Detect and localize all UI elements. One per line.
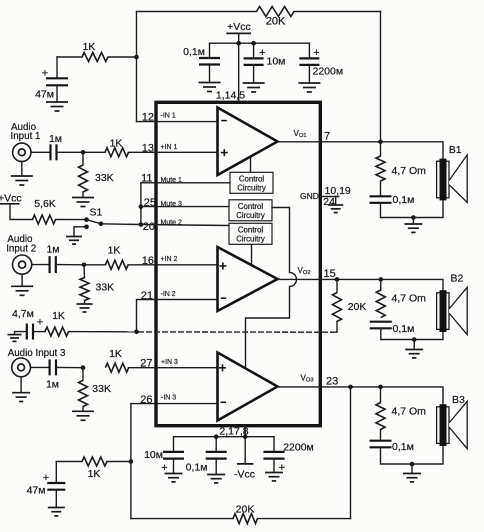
ground below S1	[66, 237, 82, 245]
svg-text:1K: 1K	[108, 245, 121, 257]
ground below 33K ch1	[72, 192, 94, 207]
svg-text:20K: 20K	[236, 504, 255, 516]
svg-text:5,6K: 5,6K	[34, 198, 56, 210]
svg-text:Circuitry: Circuitry	[237, 184, 266, 193]
wire pin 27 +IN3 into op-amp	[129, 367, 218, 369]
svg-text:21: 21	[141, 290, 153, 302]
resistor 1K (ch1 input)	[105, 148, 129, 157]
svg-text:16: 16	[142, 255, 154, 267]
capacitor 0,1м (-Vcc decoupling)	[206, 437, 227, 459]
svg-text:B3: B3	[452, 394, 465, 406]
label 1K (ch1 feedback)	[83, 41, 96, 53]
resistor 1K (ch3 input)	[105, 363, 128, 372]
node mute bus pin 25 junction	[139, 204, 144, 209]
svg-text:+: +	[313, 47, 319, 59]
capacitor 10м (-Vcc decoupling)	[163, 437, 184, 459]
ground below 33K ch2	[77, 301, 93, 313]
label 10м (+Vcc)	[267, 56, 286, 68]
svg-text:-IN 1: -IN 1	[161, 112, 176, 119]
resistor 1K (ch1 feedback to ground)	[82, 53, 108, 62]
svg-text:0,1м: 0,1м	[393, 194, 415, 206]
op-amp U1c minus sign	[221, 401, 227, 403]
svg-text:1K: 1K	[52, 310, 65, 322]
label + polarity 10м	[259, 47, 265, 59]
label 5,6K	[34, 198, 56, 210]
wire GND pins stub	[320, 196, 339, 198]
resistor 4,7 Om (B3 zobel)	[376, 387, 385, 430]
label 33K (ch1)	[95, 172, 114, 184]
svg-text:20K: 20K	[348, 301, 367, 313]
switch S1 arm	[87, 220, 101, 224]
resistor 1K (ch2 feedback)	[45, 327, 69, 336]
pin number 25	[144, 197, 156, 209]
capacitor 10м (+Vcc decoupling)	[244, 43, 264, 65]
+Vcc supply bar symbol	[226, 32, 251, 34]
svg-text:4,7 Om: 4,7 Om	[392, 406, 427, 418]
svg-text:33K: 33K	[96, 282, 115, 294]
wire pin 21 -IN2 into op-amp	[137, 300, 219, 332]
ground at GND pins	[328, 197, 343, 213]
ground below 33K ch3	[72, 407, 94, 421]
svg-text:4,7 Om: 4,7 Om	[392, 165, 427, 177]
connector Audio Input 3 jack	[12, 358, 31, 377]
svg-text:Circuitry: Circuitry	[236, 235, 265, 244]
wire jack 3 to coupling cap	[31, 366, 50, 368]
ground below 0,1м bottom	[207, 459, 225, 483]
label 2200м (+Vcc)	[313, 66, 344, 78]
wire 1K to -IN3 node	[107, 461, 131, 463]
wire cap to ch3 input node	[56, 366, 83, 368]
ground at 4,7м cap	[8, 332, 27, 342]
pin number 7	[324, 131, 330, 143]
svg-text:Circuitry: Circuitry	[236, 211, 265, 220]
svg-text:+IN 1: +IN 1	[161, 144, 178, 151]
resistor 1K (ch2 input)	[105, 260, 128, 269]
svg-text:13: 13	[142, 142, 154, 154]
svg-text:27: 27	[140, 358, 152, 370]
capacitor 0,1м (+Vcc decoupling)	[199, 43, 220, 64]
svg-text:Control: Control	[239, 175, 264, 184]
svg-text:0,1м: 0,1м	[393, 323, 415, 335]
wire 1K to junction	[108, 56, 137, 58]
capacitor 47м (ch3 feedback)	[47, 462, 65, 490]
node pin 23 / bottom feedback junction	[348, 385, 353, 390]
svg-text:1K: 1K	[88, 468, 101, 480]
label 47м (top)	[35, 89, 54, 101]
resistor 33K (ch3 bias)	[79, 368, 88, 407]
wire 20K bottom to dashed feedback	[331, 322, 337, 333]
svg-text:GND: GND	[300, 191, 319, 201]
pin number 20	[143, 221, 155, 233]
pin number 13	[142, 142, 154, 154]
wire 47м cap to 1K resistor	[57, 56, 82, 58]
ground below jack 2	[11, 274, 33, 295]
label 4,7м	[12, 308, 34, 320]
svg-text:1м: 1м	[46, 243, 59, 255]
pin number 23	[326, 375, 338, 387]
label 10м (bottom)	[144, 449, 163, 461]
capacitor 47м (ch1 feedback)	[46, 57, 68, 85]
svg-text:1,14,5: 1,14,5	[216, 90, 245, 102]
label +IN 2	[161, 256, 178, 263]
op-amp U1a plus sign	[221, 149, 228, 156]
label 0,1м (+Vcc)	[183, 46, 205, 58]
label -IN 3	[161, 395, 176, 402]
wire 5,6K to switch contact	[56, 219, 87, 221]
wire pin 25 Mute 3 into IC	[141, 206, 229, 208]
node mute bus pin 20 junction	[139, 222, 144, 227]
resistor 20K (bottom feedback)	[233, 514, 258, 524]
label 1м (ch3)	[46, 379, 59, 391]
svg-text:10м: 10м	[144, 449, 163, 461]
svg-text:33K: 33K	[92, 383, 111, 395]
label -IN 1	[161, 112, 176, 119]
ground below 47м bottom	[48, 490, 65, 516]
node B1 ground junction	[411, 215, 416, 220]
wire dashed feedback to 20K (pin 15)	[139, 331, 331, 333]
ground below 2200м bottom	[265, 459, 283, 481]
pin number 16	[142, 255, 154, 267]
capacitor 1м (ch1 input coupling)	[51, 144, 57, 160]
control circuitry box 2 (Mute 3)	[229, 200, 272, 221]
node -IN2 feedback junction	[134, 330, 139, 335]
svg-text:4,7м: 4,7м	[12, 308, 34, 320]
capacitor 2200м (-Vcc bulk)	[264, 437, 285, 459]
wire cap to ch2 input node	[56, 264, 84, 266]
wire B3 zobel and speaker return	[381, 445, 444, 464]
svg-text:33K: 33K	[95, 172, 114, 184]
ground below 0,1м (+Vcc)	[199, 65, 221, 92]
wire jack 1 to coupling cap	[31, 151, 51, 153]
+Vcc bar (mute pull-up)	[0, 203, 20, 205]
svg-text:1м: 1м	[49, 133, 62, 145]
label 20K (ch2 feedback)	[348, 301, 367, 313]
wire Vo1 output pin 7 to speaker B1	[278, 142, 444, 160]
label 4,7 Om (B1)	[392, 165, 427, 177]
svg-text:-IN 2: -IN 2	[161, 291, 176, 298]
wire +Vcc decoupling rail	[210, 42, 310, 44]
label Audio Input 1	[11, 122, 41, 142]
ground at B3 return	[403, 464, 421, 482]
resistor 4,7 Om (B1 zobel)	[376, 142, 385, 181]
svg-text:+IN 3: +IN 3	[161, 359, 178, 366]
pin numbers 10,19	[325, 185, 351, 197]
svg-text:Audio Input 3: Audio Input 3	[8, 348, 66, 359]
svg-text:10м: 10м	[267, 56, 286, 68]
label 20K (bottom)	[236, 504, 255, 516]
svg-text:24: 24	[323, 196, 335, 208]
label + polarity 4,7м	[37, 317, 43, 329]
svg-text:2200м: 2200м	[283, 442, 314, 454]
switch S1 lower contact	[84, 225, 89, 230]
svg-text:+: +	[43, 472, 49, 484]
wire feedback left vertical down to -IN1	[136, 12, 138, 122]
resistor 20K (top feedback)	[257, 7, 295, 17]
connector Audio Input 1 jack	[13, 143, 31, 161]
svg-text:26: 26	[140, 394, 152, 406]
label + polarity 47м bottom	[43, 472, 49, 484]
label 1м (ch2)	[46, 243, 59, 255]
ground below 10м bottom	[165, 459, 183, 482]
wire pin 16 +IN2 into op-amp	[128, 264, 218, 266]
label Mute 2	[161, 219, 183, 226]
label S1	[90, 207, 103, 219]
label 4,7 Om (B3)	[392, 406, 427, 418]
svg-text:2200м: 2200м	[313, 66, 344, 78]
wire Vo2 output pin 15 to speaker B2	[278, 279, 444, 291]
capacitor 2200м (+Vcc bulk)	[299, 58, 319, 65]
node 1K/20K/-IN3 junction	[129, 459, 134, 464]
pin number 21	[141, 290, 153, 302]
node rail/stem junction	[236, 41, 241, 46]
wire jack 2 to coupling cap	[32, 264, 50, 266]
label 0,1м (B1)	[393, 194, 415, 206]
wire -Vcc stem from IC pins 2,17,8	[244, 426, 246, 464]
pin number 15	[324, 268, 336, 280]
wire cap to ch1 input node	[57, 151, 84, 153]
label 2200м (bottom)	[283, 442, 314, 454]
capacitor 0,1м (B3 zobel)	[370, 430, 392, 448]
ground at B2 return	[405, 340, 423, 358]
switch S1 pivot	[99, 222, 104, 227]
node B2 ground junction	[412, 337, 417, 342]
ground below 47м top	[46, 85, 68, 111]
label 1м (ch1)	[49, 133, 62, 145]
pin label 2,17,8 (V- pins)	[219, 426, 248, 438]
label 33K (ch3)	[92, 383, 111, 395]
node Vo2 zobel junction	[379, 277, 384, 282]
node rail/10м junction	[251, 41, 256, 46]
label B1	[449, 144, 462, 156]
op-amp U1b minus sign	[221, 297, 227, 299]
wire B2 zobel and speaker return	[381, 328, 443, 339]
label +Vcc (mute pull-up)	[0, 193, 22, 205]
label + polarity 10м bottom	[161, 462, 167, 474]
svg-text:Input 2: Input 2	[6, 244, 36, 255]
label + polarity 2200м	[313, 47, 319, 59]
label 33K (ch2)	[96, 282, 115, 294]
wire top feedback horizontal (Vo1 to 20K to -IN1 node)	[137, 11, 381, 13]
label + polarity 2200м bottom	[279, 462, 285, 474]
resistor 33K (ch2 bias)	[80, 265, 89, 301]
label Vo2	[298, 266, 311, 276]
pin number 11	[141, 172, 152, 184]
wire rail corner to 2200м	[308, 43, 310, 58]
svg-text:15: 15	[324, 268, 336, 280]
resistor 1K (ch3 feedback)	[82, 457, 107, 466]
svg-text:23: 23	[326, 375, 338, 387]
node B3 ground junction	[410, 462, 415, 467]
label +IN 1	[161, 144, 178, 151]
op-amp U1a triangle	[218, 108, 278, 176]
label Vo3	[301, 374, 314, 384]
label 0,1м (bottom)	[186, 462, 208, 474]
ground below 10м	[243, 65, 265, 92]
wire Vo3 feedback right vertical	[350, 387, 352, 519]
wire mute bus vertical	[140, 183, 142, 225]
wire 4,7м to 1K	[33, 331, 45, 333]
op-amp U1b triangle	[218, 247, 278, 311]
wire lower contact to ground	[74, 227, 87, 237]
speaker B1	[437, 155, 468, 203]
node ch2 input junction	[82, 263, 87, 268]
op-amp U1b plus sign	[219, 263, 226, 270]
label B2	[451, 273, 464, 285]
op-amp U1c plus sign	[219, 364, 226, 371]
capacitor 0,1м (B2 zobel)	[370, 322, 392, 329]
wire +Vcc stem down to IC pins 1,14,5	[238, 33, 240, 101]
op-amp U1a minus sign	[221, 120, 227, 122]
node junction 1K/20K/-IN1	[134, 55, 139, 60]
svg-text:1K: 1K	[83, 41, 96, 53]
resistor 33K (ch1 bias)	[79, 152, 88, 192]
svg-text:1м: 1м	[46, 379, 59, 391]
wire feedback right vertical down to Vo1 node	[380, 12, 382, 142]
wire control box 2 to op-amp 3 (with hop over Vo2)	[246, 208, 297, 369]
wire op-amp1 to control box 1	[250, 157, 252, 172]
wire ch2 node to 1K	[84, 264, 105, 266]
svg-text:47м: 47м	[35, 89, 54, 101]
wire -Vcc decoupling rail	[174, 436, 275, 438]
svg-text:20: 20	[143, 221, 155, 233]
wire control box 3 to op-amp 2	[251, 244, 253, 265]
control circuitry box 3 (Mute 2)	[229, 223, 272, 244]
svg-text:+: +	[259, 47, 265, 59]
svg-text:+Vcc: +Vcc	[227, 21, 251, 33]
node Vo3 zobel junction	[378, 385, 383, 390]
wire B1 zobel and speaker return	[381, 199, 444, 218]
svg-text:1K: 1K	[110, 138, 123, 150]
capacitor 1м (ch2 input coupling)	[50, 256, 56, 273]
svg-text:B1: B1	[449, 144, 462, 156]
wire bottom feedback horizontal	[131, 518, 351, 520]
resistor 20K (ch2 feedback)	[333, 279, 342, 321]
node pin 15 / 20K junction	[335, 277, 340, 282]
svg-text:12: 12	[142, 112, 154, 124]
ground below jack 1	[11, 162, 33, 186]
label -IN 2	[161, 291, 176, 298]
label +IN 3	[161, 359, 178, 366]
ground below 2200м	[298, 65, 320, 92]
speaker B2	[437, 287, 468, 334]
wire pin 11 Mute 1 into IC	[141, 182, 230, 184]
svg-text:Input 1: Input 1	[11, 131, 41, 142]
capacitor 0,1м (B1 zobel)	[370, 181, 392, 203]
wire pin 20 Mute 2 into IC	[141, 225, 229, 226]
svg-text:7: 7	[324, 131, 330, 143]
label 20K (top)	[266, 16, 286, 28]
label Audio Input 2	[6, 234, 36, 255]
op-amp U1c triangle	[218, 353, 278, 421]
capacitor 4,7м (ch2 feedback)	[27, 324, 33, 340]
resistor 4,7 Om (B2 zobel)	[376, 279, 385, 317]
wire pin 26 -IN3 into op-amp	[131, 404, 218, 519]
label Mute 1	[161, 177, 183, 184]
svg-text:0,1м: 0,1м	[186, 462, 208, 474]
control circuitry box 1 (Mute 1)	[230, 172, 273, 193]
op-amp IC U1 package outline (pins 1-27)	[156, 102, 320, 425]
label 4,7 Om (B2)	[392, 293, 427, 305]
label + polarity 47м top	[42, 68, 48, 80]
svg-text:+Vcc: +Vcc	[0, 193, 22, 205]
svg-text:B2: B2	[451, 273, 464, 285]
pin number 12	[142, 112, 154, 124]
speaker B3	[437, 401, 468, 448]
svg-text:S1: S1	[90, 207, 103, 219]
label -Vcc	[234, 469, 255, 481]
label 1K (ch1 input)	[110, 138, 123, 150]
node Vo1 output junction	[378, 140, 383, 145]
label 47м (bottom)	[27, 485, 46, 497]
label GND (inside IC)	[300, 191, 319, 201]
switch S1 upper contact	[84, 217, 89, 222]
node ch3 input junction	[81, 365, 86, 370]
node ch1 input junction	[81, 150, 86, 155]
label 1K (ch3 feedback)	[88, 468, 101, 480]
label 1K (ch2 feedback)	[52, 310, 65, 322]
label Mute 3	[161, 201, 183, 208]
svg-text:+: +	[37, 317, 43, 329]
capacitor 1м (ch3 input coupling)	[50, 359, 56, 375]
ground below jack 3	[12, 377, 30, 402]
svg-text:-IN 3: -IN 3	[161, 395, 176, 402]
pin label 1,14,5 (V+ pins)	[216, 90, 245, 102]
label +Vcc (top supply)	[227, 21, 251, 33]
wire input node to 1K ch1	[83, 151, 105, 153]
svg-text:+: +	[161, 462, 167, 474]
label Audio Input 3	[8, 348, 66, 359]
label 0,1м (B2)	[393, 323, 415, 335]
ground at B1 return	[404, 218, 422, 233]
wire 47м bottom to 1K	[56, 461, 82, 463]
wire switch to mute bus	[101, 223, 141, 226]
svg-text:+: +	[42, 68, 48, 80]
label 1K (ch2 input)	[108, 245, 121, 257]
svg-text:-Vcc: -Vcc	[234, 469, 255, 481]
wire Vo3 output pin 23 to speaker B3	[278, 387, 444, 405]
connector Audio Input 2 jack	[13, 255, 32, 274]
svg-text:47м: 47м	[27, 485, 46, 497]
wire pin 13 +IN1 into op-amp	[129, 151, 219, 153]
pin number 26	[140, 394, 152, 406]
pin number 27	[140, 358, 152, 370]
node rail/0,1м junction	[214, 434, 219, 439]
svg-text:Control: Control	[238, 202, 263, 211]
node rail/stem junction bottom	[243, 434, 248, 439]
resistor 5,6K (mute pull-up)	[33, 215, 56, 224]
svg-text:20K: 20K	[266, 16, 286, 28]
svg-text:0,1м: 0,1м	[392, 441, 414, 453]
wire +Vcc to 5,6K	[10, 204, 33, 220]
pin number 24	[323, 196, 335, 208]
label Vo1	[294, 129, 307, 139]
svg-text:Control: Control	[238, 226, 263, 235]
label B3	[452, 394, 465, 406]
svg-text:4,7 Om: 4,7 Om	[392, 293, 427, 305]
-Vcc supply bar symbol	[237, 463, 254, 465]
svg-text:1K: 1K	[109, 348, 122, 360]
svg-text:0,1м: 0,1м	[183, 46, 205, 58]
wire pin 12 -IN1 into op-amp	[137, 121, 219, 123]
wire 1K to -IN2 node	[69, 331, 137, 333]
label 1K (ch3 input)	[109, 348, 122, 360]
svg-text:+IN 2: +IN 2	[161, 256, 178, 263]
label 0,1м (B3)	[392, 441, 414, 453]
